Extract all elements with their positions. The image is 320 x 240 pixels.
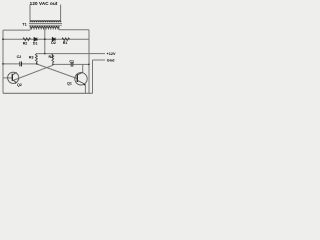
svg-text:Q1: Q1 <box>67 82 72 86</box>
svg-text:C1: C1 <box>69 59 74 63</box>
svg-text:Q2: Q2 <box>17 83 22 87</box>
svg-text:C2: C2 <box>17 55 22 59</box>
svg-text:D1: D1 <box>33 41 38 45</box>
svg-text:+12V: +12V <box>107 52 116 56</box>
svg-text:D2: D2 <box>51 41 56 45</box>
svg-text:R3: R3 <box>29 55 34 59</box>
svg-text:R4: R4 <box>48 55 53 59</box>
svg-text:T1: T1 <box>22 21 27 26</box>
svg-text:Gnd: Gnd <box>107 58 115 62</box>
svg-text:R1: R1 <box>63 41 68 45</box>
svg-text:R2: R2 <box>23 41 28 45</box>
svg-text:120 VAC out: 120 VAC out <box>30 1 58 6</box>
